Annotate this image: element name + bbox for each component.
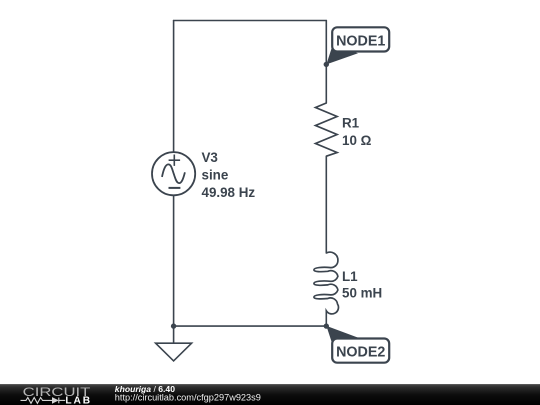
wire resistor to inductor xyxy=(325,156,327,253)
node NODE2 name flag xyxy=(326,326,389,363)
logo zigzag diode xyxy=(21,398,66,404)
wire ground stub xyxy=(173,326,175,343)
NODE1 flag text xyxy=(336,33,385,49)
svg-text:NODE2: NODE2 xyxy=(336,345,385,361)
svg-text:49.98 Hz: 49.98 Hz xyxy=(202,185,256,200)
junction dot at node NODE2 xyxy=(324,323,329,328)
wire top horizontal xyxy=(174,20,327,22)
V3 sine waveform glyph xyxy=(162,164,185,183)
voltage source V3 xyxy=(152,152,195,195)
NODE2 flag box xyxy=(332,339,389,363)
junction dot at node NODE1 xyxy=(324,62,329,67)
svg-text:10 Ω: 10 Ω xyxy=(342,133,372,148)
svg-text:L1: L1 xyxy=(342,269,358,284)
V3 minus sign (negative terminal) xyxy=(169,187,181,189)
resistor R1 xyxy=(316,103,338,156)
wire bottom horizontal xyxy=(174,325,327,327)
wire left vertical lower xyxy=(173,196,175,327)
svg-text:NODE1: NODE1 xyxy=(336,33,385,49)
inductor L1 xyxy=(314,252,339,314)
NODE2 flag pointer tail xyxy=(326,326,358,346)
svg-text:50 mH: 50 mH xyxy=(342,286,382,301)
wire left vertical upper xyxy=(173,21,175,153)
svg-text:LAB: LAB xyxy=(65,396,92,405)
junction dot at ground xyxy=(171,323,176,328)
V3 source circle body xyxy=(152,152,195,195)
NODE1 flag box xyxy=(332,27,389,51)
svg-text:sine: sine xyxy=(202,167,229,182)
svg-text:http://circuitlab.com/cfgp297w: http://circuitlab.com/cfgp297w923s9 xyxy=(115,393,261,403)
node NODE1 name flag xyxy=(326,27,389,64)
wire right vertical to resistor xyxy=(325,21,327,104)
svg-text:V3: V3 xyxy=(202,150,218,165)
svg-text:R1: R1 xyxy=(342,115,360,130)
NODE1 flag pointer tail xyxy=(326,45,358,65)
NODE2 flag text xyxy=(336,345,385,361)
footer bar xyxy=(0,384,540,405)
wire inductor to bottom junction xyxy=(325,311,327,326)
ground symbol xyxy=(156,343,192,361)
V3 plus sign (positive terminal) xyxy=(169,155,181,166)
